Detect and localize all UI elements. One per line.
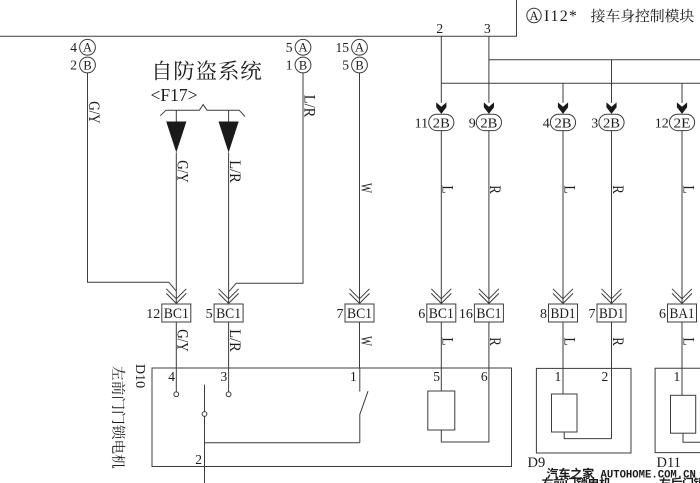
svg-text:L/R: L/R [226,329,243,352]
svg-text:16: 16 [459,307,473,322]
svg-text:BA1: BA1 [670,306,695,322]
svg-text:4: 4 [70,40,77,55]
pin 1 of D9 [555,368,563,394]
switch contact under pin 3 [226,392,231,397]
svg-text:6: 6 [418,307,425,322]
wire label W below BC1-7 [357,336,374,346]
svg-text:G/Y: G/Y [174,329,191,352]
wire label L col 441 [439,185,456,194]
svg-text:2B: 2B [433,117,450,132]
svg-text:BD1: BD1 [599,306,624,322]
wire label R below BC1-16 [486,337,503,346]
svg-text:12: 12 [655,117,669,132]
arrow (antitheft feed) right [219,122,239,153]
svg-text:2B: 2B [555,117,572,132]
wire G/Y from pin 2B down and over to BC1-12 [88,73,177,291]
wire L/R from antitheft arrow to BC1-5 [228,153,230,305]
svg-text:15: 15 [336,40,350,55]
svg-text:3: 3 [591,117,598,132]
svg-text:L: L [560,185,577,194]
svg-text:3: 3 [221,369,228,384]
pin 3 of D10 [221,368,229,392]
svg-text:B: B [299,58,307,72]
wire below connector 8 BD1 [562,322,564,368]
wire label L below BA1-6 [679,337,696,346]
label D10 [132,364,147,388]
wire from splice 2B col 563 down to connector [562,131,564,304]
svg-text:5: 5 [286,40,293,55]
connector 7 BD1 [589,289,627,322]
wire below connector 5 BC1 [228,322,230,368]
svg-text:BC1: BC1 [429,306,454,322]
svg-text:9: 9 [469,117,476,132]
wire label L col 563 [560,185,577,194]
bus wire from pin 3 [489,59,700,61]
pin 3 of I12 [484,21,491,103]
svg-text:AUTOHOME.COM.CN: AUTOHOME.COM.CN [601,469,696,481]
D9 box [536,368,631,453]
wire label G/Y col 176 [174,160,191,183]
svg-text:8: 8 [540,307,547,322]
splice 9 2B with arrow [469,102,502,131]
svg-text:B: B [83,58,91,72]
pin 2 of I12 [436,21,443,103]
svg-text:2: 2 [436,21,443,36]
svg-text:BC1: BC1 [164,306,189,322]
wire label L/R col 228 [226,160,243,183]
wire label G/Y below BC1-12 [174,329,191,352]
wire from splice 2E col 682 down to connector [681,131,683,304]
svg-text:4: 4 [168,369,175,384]
svg-text:A: A [298,41,307,55]
svg-text:5: 5 [342,58,349,73]
svg-text:1: 1 [555,369,562,384]
svg-text:BC1: BC1 [216,306,241,322]
svg-text:A: A [355,41,364,55]
splice 12 2E with arrow [655,102,695,131]
svg-text:BC1: BC1 [476,306,501,322]
label D9 [528,455,546,471]
label I12* 接车身控制模块 [544,8,578,25]
label <F17> [151,85,198,105]
svg-text:G/Y: G/Y [85,101,102,124]
connector pins 5A 1B at x=303 [286,39,311,73]
wire tap col 611.5 from upper bus [611,60,613,103]
wire below connector 6 BA1 [681,322,683,368]
connector pins 15A 5B at x=359.5 [336,39,368,73]
svg-text:R: R [486,337,503,346]
wire below connector 16 BC1 [488,322,490,368]
svg-text:L: L [679,337,696,346]
pin 5 of D10 [433,369,440,384]
connector circle A (header) [527,8,541,23]
svg-text:A: A [83,41,92,55]
pin 6 of D10 [481,369,488,384]
wire from splice 2B col 441.3 down to connector [440,131,442,304]
title 自防盗系统 [155,60,261,80]
bus wire from pin 2 [441,82,700,84]
svg-text:B: B [355,58,363,72]
svg-text:3: 3 [484,21,491,36]
svg-text:2B: 2B [480,117,497,132]
svg-text:A: A [529,9,538,23]
svg-text:5: 5 [433,369,440,384]
svg-text:L: L [560,337,577,346]
wire W from pin 5B to BC1-7 [359,73,361,304]
svg-text:R: R [486,185,503,194]
svg-text:D10: D10 [132,364,147,388]
svg-text:6: 6 [659,307,666,322]
label 左前门门锁电机 (rotated) [112,367,126,469]
wire below connector 7 BC1 [359,322,361,368]
svg-text:R: R [609,337,626,346]
svg-text:R: R [609,185,626,194]
lock motor in D9 [552,394,578,432]
wire label L/R col 303 [300,95,317,118]
wire label R below BD1-7 [609,337,626,346]
wire tap col 682 from lower bus [681,83,683,103]
bottom label 左后门锁 (cut off) [659,477,700,483]
wire label L col 682 [679,185,696,194]
connector 6 BA1 [659,289,697,322]
svg-text:BC1: BC1 [347,306,372,322]
wire below connector 7 BD1 [611,322,613,368]
svg-text:6: 6 [481,369,488,384]
wire label R col 611 [609,185,626,194]
lock motor M in D10 [428,368,455,430]
connector 16 BC1 [459,289,504,322]
watermark 汽车之家 [545,467,594,480]
svg-text:L: L [439,337,456,346]
wire below connector 6 BC1 [440,322,442,368]
wire from splice 2B col 488.9 down to connector [488,131,490,304]
pin 2 of D10 with wire to bottom [195,443,204,483]
stub wire to right arrow [228,110,230,121]
svg-text:L/R: L/R [300,95,317,118]
splice 11 2B with arrow [415,102,454,131]
pin 4 of D10 [168,368,176,392]
motor loop wire D9 [564,432,611,439]
connector 8 BD1 [540,289,578,322]
label D11 [657,455,681,471]
svg-text:L: L [679,185,696,194]
svg-text:I12*: I12* [544,8,578,25]
wire L/R from pin 1B down and over to BC1-5 [229,73,303,292]
svg-text:12: 12 [146,307,160,322]
svg-text:11: 11 [415,117,428,132]
svg-text:2E: 2E [674,117,691,132]
wire below connector 12 BC1 [175,322,177,368]
watermark AUTOHOME.COM.CN [601,469,696,481]
bottom label 右前门锁电机 (cut off) [542,477,611,483]
svg-text:7: 7 [589,307,596,322]
connector 6 BC1 [418,289,456,322]
stub wire to left arrow [175,110,177,121]
wire from splice 2B col 611.5 down to connector [611,131,613,304]
svg-text:1: 1 [350,369,357,384]
switch common contact [202,385,207,443]
svg-text:1: 1 [674,369,681,384]
svg-text:2: 2 [602,369,609,384]
wire G/Y from antitheft arrow to BC1-12 [175,153,177,305]
connector pins 4A 2B at x=87.5 [70,39,95,73]
splice 4 2B with arrow [543,102,576,131]
svg-text:G/Y: G/Y [174,160,191,183]
svg-text:L: L [439,185,456,194]
svg-text:W: W [357,183,374,193]
D11 box [655,368,700,452]
svg-text:W: W [357,336,374,346]
arrow (antitheft feed) left [166,122,186,153]
switch internal bus [205,442,360,444]
svg-text:D9: D9 [528,455,546,471]
svg-text:1: 1 [286,58,293,73]
brace under F17 [160,105,245,117]
svg-text:5: 5 [206,307,213,322]
wire label R col 489 [486,185,503,194]
svg-text:BD1: BD1 [551,306,576,322]
motor loop wire D11 [683,433,700,442]
svg-text:2B: 2B [603,117,620,132]
pin 2 of D9 [602,368,612,438]
motor loop wire to pin 6 [441,368,489,442]
pin 1 of D11 [674,368,682,395]
svg-text:<F17>: <F17> [151,85,198,105]
wire label W col 359 [357,183,374,193]
splice 3 2B with arrow [591,102,624,131]
D10 box (left front door lock motor) [152,368,512,467]
switch contact under pin 4 [174,392,179,397]
wire label G/Y col 87 [85,101,102,124]
header text 接车身控制模块 [591,9,694,23]
lock motor in D11 [671,395,696,433]
connector 7 BC1 [337,289,375,322]
pin 1 of D10 [350,369,357,384]
svg-text:2: 2 [195,452,202,467]
svg-text:7: 7 [337,307,344,322]
wire label L below BD1-8 [560,337,577,346]
wire label L below BC1-6 [439,337,456,346]
connector 12 BC1 [146,289,191,322]
svg-text:2: 2 [70,58,77,73]
module I12 box outline (bottom-right corner of body control module) [0,0,517,36]
wire tap col 563 from lower bus [562,83,564,103]
connector 5 BC1 [206,289,244,322]
svg-text:4: 4 [543,117,550,132]
wire label L/R below BC1-5 [226,329,243,352]
svg-text:L/R: L/R [226,160,243,183]
switch arm from pin 1 [360,368,368,443]
